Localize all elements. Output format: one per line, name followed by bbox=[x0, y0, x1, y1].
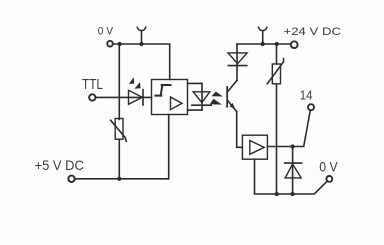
wire varistor branch vertical bbox=[118, 44, 120, 120]
wire TTL input bbox=[96, 96, 152, 98]
light arrows D2 to phototransistor bbox=[210, 92, 223, 105]
svg-text:+24 V DC: +24 V DC bbox=[284, 26, 342, 38]
terminal +24V bbox=[291, 41, 298, 48]
wire +24V rail bbox=[237, 43, 290, 45]
terminal 14 bbox=[308, 104, 314, 110]
svg-text:0 V: 0 V bbox=[98, 25, 114, 37]
terminal +5V bbox=[68, 176, 74, 182]
junction dot output / freewheel diode bbox=[291, 144, 295, 148]
junction dot antenna left bbox=[139, 42, 143, 46]
wire Q1 emitter to amplifier bbox=[237, 112, 243, 147]
diode D4 freewheel bbox=[285, 147, 302, 195]
svg-text:0 V: 0 V bbox=[319, 158, 338, 174]
diode D1 input LED bbox=[129, 90, 144, 105]
junction dot +24V rail / varistor R2 bbox=[275, 42, 279, 46]
wire Q1 collector to D3 bbox=[236, 44, 238, 80]
wire U2 output to terminal 14 bbox=[267, 110, 310, 146]
svg-text:+5 V DC: +5 V DC bbox=[35, 157, 84, 173]
op-amp U2 output amplifier box bbox=[242, 135, 267, 159]
wire U2 box bottom to 0V bottom rail bbox=[255, 159, 327, 194]
terminal 0V input bbox=[107, 41, 113, 47]
junction dot +5V rail / varistor bbox=[117, 177, 121, 181]
terminal 0V output bbox=[326, 176, 332, 182]
wire varistor R2 to 0V rail bbox=[276, 84, 278, 194]
diode D3 reverse protection bbox=[228, 53, 247, 66]
Schmitt hysteresis symbol inside U1 bbox=[156, 85, 171, 96]
antenna symbol left (non-isolated connection) bbox=[137, 27, 145, 44]
terminal TTL input bbox=[89, 94, 95, 100]
junction dot antenna right bbox=[261, 42, 265, 46]
junction dot bottom rail / varistor R2 bbox=[275, 192, 279, 196]
buffer triangle inside U1 bbox=[171, 97, 183, 110]
diode D2 optocoupler LED bbox=[192, 92, 211, 105]
junction dot bottom rail / diode D4 bbox=[291, 192, 295, 196]
svg-text:TTL: TTL bbox=[82, 77, 103, 93]
light emission arrows of D1 bbox=[129, 77, 141, 88]
op-amp U1 input Schmitt-trigger box bbox=[152, 80, 188, 115]
junction dot at 0V rail / varistor branch bbox=[118, 42, 122, 46]
antenna symbol right bbox=[259, 27, 267, 44]
transistor Q1 phototransistor bbox=[226, 80, 237, 111]
varistor R2 (output protection) bbox=[267, 44, 283, 84]
wire varistor to +5V rail bbox=[118, 139, 120, 179]
wire U1 output stubs to optocoupler LED bbox=[188, 83, 203, 110]
amplifier triangle inside U2 bbox=[250, 141, 264, 155]
varistor R1 (input protection) bbox=[111, 119, 127, 142]
svg-text:14: 14 bbox=[300, 88, 313, 103]
wire 0V rail bbox=[114, 44, 170, 80]
wire +5V rail bbox=[75, 115, 169, 179]
